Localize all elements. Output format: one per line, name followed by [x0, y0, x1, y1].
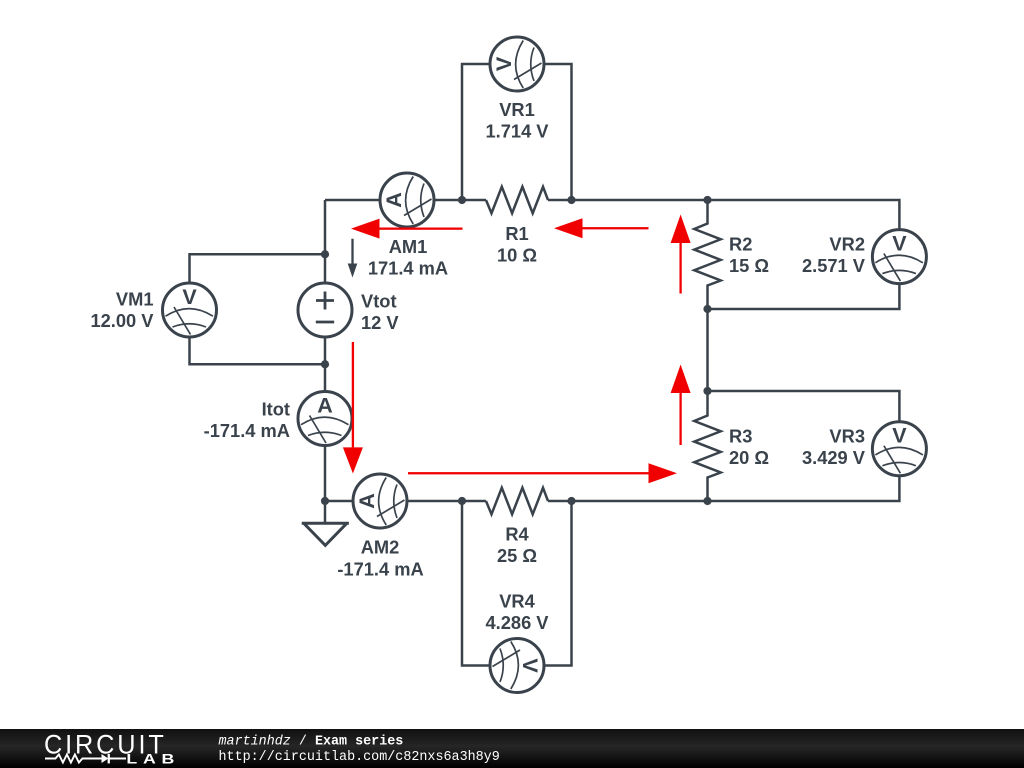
svg-text:-171.4 mA: -171.4 mA [204, 420, 290, 441]
svg-text:25 Ω: 25 Ω [497, 545, 537, 566]
node dot VM1 top junction [321, 250, 329, 258]
svg-text:R4: R4 [505, 524, 529, 545]
wire R2 bottom to R3 top [706, 309, 709, 391]
current arrow left (over AM1) [351, 219, 463, 239]
svg-text:VR2: VR2 [829, 234, 865, 255]
node dot bottom rail right junction [567, 497, 575, 505]
svg-text:1.714 V: 1.714 V [485, 121, 549, 142]
svg-text:-171.4 mA: -171.4 mA [337, 559, 423, 580]
ammeter Itot [298, 392, 352, 446]
node dot R3 top [703, 387, 711, 395]
CircuitLab logo wordmark LAB [126, 751, 180, 767]
current arrow up (R2) [671, 215, 691, 294]
resistor R4 zigzag [486, 488, 548, 515]
svg-text:A: A [317, 393, 333, 417]
CircuitLab logo diode bar [108, 754, 110, 764]
wire bottom rail left segment [325, 500, 486, 503]
voltmeter VR2 [872, 230, 926, 284]
ammeter AM2 [353, 474, 407, 528]
svg-text:20 Ω: 20 Ω [729, 447, 769, 468]
svg-text:V: V [182, 285, 197, 309]
voltmeter VR1 [490, 37, 544, 91]
svg-text:VR3: VR3 [829, 426, 865, 447]
resistor R2 (vertical) with leads [694, 200, 721, 309]
footer bar [0, 729, 1024, 768]
svg-text:10 Ω: 10 Ω [497, 245, 537, 266]
svg-text:VR4: VR4 [499, 591, 535, 612]
wire left trunk with ground stub [324, 200, 327, 523]
svg-text:V: V [492, 56, 516, 71]
svg-text:R3: R3 [729, 426, 752, 447]
CircuitLab logo diode triangle [102, 754, 109, 763]
svg-text:3.429 V: 3.429 V [802, 447, 866, 468]
svg-text:R1: R1 [505, 223, 528, 244]
CircuitLab logo wordmark CIRCUIT [44, 729, 167, 760]
svg-text:VM1: VM1 [116, 289, 154, 310]
svg-text:VR1: VR1 [499, 99, 535, 120]
svg-text:martinhdz / Exam series: martinhdz / Exam series [219, 735, 404, 750]
CircuitLab logo resistor-diode glyph [45, 755, 126, 763]
voltage source Vtot [298, 283, 352, 337]
ammeter AM1 [380, 173, 434, 227]
node dot R2 bottom [703, 305, 711, 313]
wire top rail right segment to VR2 [548, 200, 899, 309]
node dot R2 top [703, 196, 711, 204]
svg-text:12.00 V: 12.00 V [90, 310, 154, 331]
current arrow down (from Vtot) [343, 342, 363, 474]
node dot bottom rail left junction [458, 497, 466, 505]
voltmeter VR4 [490, 639, 544, 693]
svg-text:Itot: Itot [262, 399, 290, 420]
svg-text:AM2: AM2 [361, 537, 400, 558]
svg-text:15 Ω: 15 Ω [729, 255, 769, 276]
wire VR4 branch [462, 501, 572, 666]
wire VR1 branch [462, 64, 572, 200]
svg-text:V: V [892, 231, 907, 255]
current arrow left (mid top) [554, 218, 649, 238]
polarity arrow down (black, near AM1) [348, 239, 358, 278]
voltmeter VR3 [872, 422, 926, 476]
current arrow right (bottom rail) [408, 463, 677, 483]
svg-text:Vtot: Vtot [361, 291, 397, 312]
node dot VM1 bottom junction [321, 360, 329, 368]
current arrow up (R3) [671, 365, 691, 446]
wire bottom rail right segment [548, 500, 708, 503]
svg-text:V: V [892, 424, 907, 448]
svg-text:12 V: 12 V [361, 312, 399, 333]
node dot ground junction [321, 497, 329, 505]
node dot top rail right junction [567, 196, 575, 204]
svg-text:171.4 mA: 171.4 mA [368, 258, 448, 279]
resistor R1 zigzag [486, 187, 548, 214]
resistor R3 (vertical) with leads [694, 391, 721, 501]
wire top rail left segment [325, 199, 486, 202]
svg-text:R2: R2 [729, 234, 752, 255]
wire VR3 branch [708, 391, 900, 501]
ground [302, 523, 349, 545]
voltmeter VM1 [163, 283, 217, 337]
svg-text:http://circuitlab.com/c82nxs6a: http://circuitlab.com/c82nxs6a3h8y9 [219, 750, 500, 765]
svg-text:V: V [518, 658, 542, 673]
svg-text:A: A [382, 192, 406, 208]
node dot top rail left junction [458, 196, 466, 204]
node dot R3 bottom [703, 497, 711, 505]
svg-text:2.571 V: 2.571 V [802, 255, 866, 276]
svg-text:LAB: LAB [126, 751, 180, 767]
svg-text:4.286 V: 4.286 V [485, 612, 549, 633]
wire VM1 branch [190, 254, 326, 364]
svg-text:AM1: AM1 [389, 236, 428, 257]
svg-text:A: A [355, 493, 379, 509]
